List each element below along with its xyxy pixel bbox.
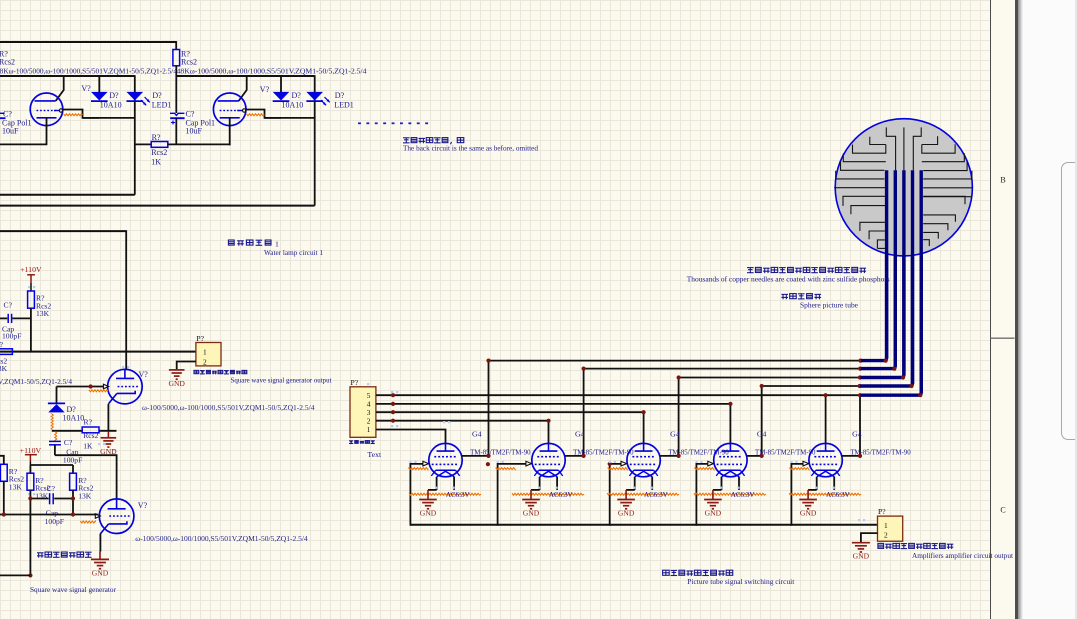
svg-text:48Kω-100/5000,ω-100/1000,S5/50: 48Kω-100/5000,ω-100/1000,S5/501V,ZQM1-50… [0,66,177,75]
wire plate column tube 2 [548,421,550,445]
svg-text:D?: D? [292,91,302,100]
snap marks tube 1 [409,461,411,463]
sphere electrode pattern top-center [886,127,895,170]
snap marks tube 3 [609,461,611,463]
sphere picture tube body [835,119,972,256]
heater squiggle AC bus tube 4 [694,493,766,495]
wire LED cathode link 1 [83,117,135,119]
svg-text:Rcs2: Rcs2 [151,148,167,157]
wire plate column tube 5 [825,395,827,444]
wire cathode stem V2 [229,118,231,146]
wire grid hook tube 1 [410,464,423,526]
wire LED cathode link 2 [265,117,315,119]
wire LED column 2b [314,75,316,205]
svg-text:100pF: 100pF [63,456,82,465]
no-ERC squiggle circuit 2 [247,114,265,116]
wire pin5 net G4 row [376,394,860,396]
svg-text:1: 1 [275,240,279,249]
junction navy-thin row 4 [858,384,862,388]
junction grid V3 [89,384,93,388]
wire pin2 to ground [177,362,196,370]
wire resistor left bottom [3,481,5,514]
wire sphere feeder row 4 [762,385,860,387]
svg-text:TM-85/TM2F/TM-90: TM-85/TM2F/TM-90 [755,447,816,456]
svg-text:Rcs2: Rcs2 [0,57,15,66]
junction navy-thin row 3 [858,375,862,379]
svg-text:AC6:3V: AC6:3V [446,490,470,499]
junction screen tube 4 [760,454,764,458]
wire cathode drop V3 [107,404,109,432]
heater pins tube 5 [816,477,818,490]
svg-text:GND: GND [168,379,185,388]
bus line 1 bend [861,170,887,360]
diode D? 10A10 (circuit 2) [273,92,290,101]
svg-text:1: 1 [367,425,371,434]
junction screen tube 3 [677,454,681,458]
wire sphere feeder row 1 [489,360,861,362]
resistor R? Rcs2 (top) [173,50,180,66]
wire R1K to cap column [168,143,230,145]
heater pins tube 2 [539,477,541,490]
wire LED column 1a [98,75,100,92]
svg-text:C?: C? [186,109,195,118]
svg-text:P?: P? [878,507,886,516]
junction dots grid B [2,512,6,516]
tube V? (oscillator A) [108,369,143,404]
wire pin3 net [376,411,644,413]
no-ERC squiggle grid tube 3 [608,468,628,470]
junction isolated dot near tube1 [486,462,490,466]
svg-text:ω-100/5000,ω-100/1000,S5/501V,: ω-100/5000,ω-100/1000,S5/501V,ZQM1-50/5,… [135,534,308,543]
sheet border zone column [990,0,1016,619]
svg-text:13K: 13K [9,483,23,492]
sphere electrode pattern top-right [922,136,938,144]
svg-text:G4: G4 [757,429,767,438]
svg-text:Picture tube signal switching: Picture tube signal switching circuit [687,577,795,586]
svg-text:C: C [1000,505,1005,514]
wire sphere feeder row 2 [584,368,861,370]
svg-text:V?: V? [139,370,149,379]
tube V? (top circuit 1) [30,93,63,126]
bus line 3 bend [860,170,904,377]
LED D? LED1 (circuit 1) [127,92,144,101]
tube V? switch 2 [532,443,565,476]
svg-text:B: B [1000,175,1005,184]
svg-text:AC6:3V: AC6:3V [644,490,668,499]
wire grid hook tube 3 [610,464,622,526]
heater pins tube 3 [634,477,636,490]
junction bus corner 1 [884,359,888,363]
tube V? (oscillator B) [99,499,134,534]
sphere electrode pattern bottom-left [843,196,886,206]
wire sphere feeder row 3 [679,377,860,379]
svg-text:GND: GND [618,509,635,518]
svg-text:Rcs2: Rcs2 [83,431,98,440]
wire cap stem to plate rail [54,445,56,455]
bus needle column x=912.5 [911,170,914,384]
no-ERC squiggle grid tube 5 [789,468,809,470]
sheet edge line [1015,0,1018,619]
svg-text:GND: GND [420,509,437,518]
svg-text:D?: D? [335,91,345,100]
wire grid hook tube 5 [791,464,803,526]
label picture tube switching (Chinese) [663,570,733,576]
wire resistor feed [175,41,177,49]
capacitor C? Cap 100pF (coupling B) [30,498,48,500]
svg-text:G4: G4 [852,429,862,438]
svg-text:TM-85/TM2F/TM-90: TM-85/TM2F/TM-90 [470,447,531,456]
svg-text:G4: G4 [472,429,482,438]
resistor R? Rcs2 1K (osc A) [82,427,99,433]
wire top B+ rail [0,41,176,43]
LED D? LED1 (circuit 2) [306,92,323,101]
capacitor C? Cap 100pF (top B) [49,440,61,442]
svg-text:10uF: 10uF [2,127,19,136]
heater pins tube 4 [721,477,723,490]
wire screen out tube 2 [565,455,584,457]
wire grid hook tube 2 [498,464,526,526]
snap marks tube 4 [695,461,697,463]
svg-text:LED1: LED1 [152,100,172,109]
wire cathode out circuit 1 [0,143,47,145]
label square wave generator output (Chinese) [194,370,247,374]
wire +110V rail B [30,464,73,466]
tube V? switch 3 [627,443,660,476]
svg-text:V?: V? [260,85,270,94]
tube V? switch 1 [429,443,462,476]
bus needle column x=903.9 [902,170,905,375]
svg-text:AC6:3V: AC6:3V [731,490,755,499]
label square wave generator (Chinese) [37,552,92,558]
wire sphere column 4 [761,386,763,456]
wire anode rail circuit 2 [176,75,314,77]
junction bus corner 2 [892,367,896,371]
svg-text:Thousands of copper needles ar: Thousands of copper needles are coated w… [687,275,890,284]
heater squiggle AC bus tube 2 [512,493,584,495]
svg-text:C?: C? [64,438,73,447]
svg-text:Rcs2: Rcs2 [181,57,197,66]
wire sphere column 2 [583,369,585,456]
svg-text:LED1: LED1 [334,100,354,109]
ground GND (amp out) [852,542,870,544]
svg-text:TM-85/TM2F/TM-90: TM-85/TM2F/TM-90 [573,447,634,456]
wire sphere column 3 [678,378,680,456]
snap marks oscillator [28,286,129,495]
bus needle column x=921.2 [920,170,923,393]
svg-text:V,ZQM1-50/5,ZQ1-2.5/4: V,ZQM1-50/5,ZQ1-2.5/4 [0,377,72,386]
heater squiggle AC bus tube 1 [409,493,481,495]
workspace right edge line [1075,0,1077,619]
tube V? switch 4 [714,443,747,476]
capacitor C? Cap Pol1 (circuit 2) [170,113,184,115]
wire cathode ground bus [410,524,877,526]
junction screen tube 5 [858,454,862,458]
resistor R? Rcs2 13K (A) [28,291,35,308]
svg-text:GND: GND [705,509,722,518]
svg-text:AC6:3V: AC6:3V [549,490,573,499]
svg-text:D?: D? [152,91,162,100]
svg-text:Sphere picture tube: Sphere picture tube [800,300,859,309]
svg-text:D?: D? [109,91,119,100]
svg-text:G4: G4 [670,429,680,438]
svg-text:1K: 1K [83,442,93,451]
wire plate feed V4 [55,455,117,499]
resistor R? Rcs2 13K (B mid) [27,473,34,490]
svg-text:The back circuit is the same a: The back circuit is the same as before, … [403,144,538,153]
wire plate column tube 3 [643,412,645,444]
note: back circuit same as before (Chinese) [403,138,464,145]
wire resistor to cap column [175,66,177,113]
svg-text:1: 1 [884,521,888,530]
label copper needles (Chinese) [747,267,866,273]
wire anode rail circuit 1 [0,75,135,77]
svg-text:5: 5 [367,391,371,400]
wire bottom rail B [0,574,30,576]
svg-text:G4: G4 [575,429,585,438]
svg-text:V?: V? [138,501,148,510]
wire resistor A bottom column [30,308,32,351]
svg-text:C?: C? [47,484,56,493]
connector P? amplifier output [878,516,903,541]
wire LED column 1b [134,75,136,195]
wire pin2 to ground (amp) [861,533,878,542]
no-ERC squiggle V3 grid [89,390,108,392]
svg-text:GND: GND [800,509,817,518]
junction bus corner 3 [901,375,905,379]
no-ERC squiggle grid tube 4 [694,468,714,470]
tube V? switch 5 [809,443,842,476]
heater squiggle AC bus tube 5 [789,493,861,495]
wire grid hook tube 4 [696,464,708,526]
wire screen out tube 5 [842,455,860,457]
wire grid hook circuit 1 [63,110,100,118]
wire sphere column 5 [859,395,861,456]
label water lamp circuit 1 (Chinese) [228,240,271,246]
svg-text:13K: 13K [78,491,92,500]
svg-text:+110V: +110V [20,265,42,274]
svg-text:10A10: 10A10 [282,100,304,109]
wire screen out tube 4 [747,455,762,457]
wire cathode stem V1 [46,118,48,145]
capacitor C? plates clipped (circuit 1) [0,112,5,114]
sheet zone divider [991,337,1015,339]
wire output net [0,351,196,353]
svg-text:48Kω-100/5000,ω-100/1000,S5/50: 48Kω-100/5000,ω-100/1000,S5/501V,ZQM1-50… [177,66,367,75]
svg-text:100pF: 100pF [2,332,21,341]
no-ERC squiggle circuit 1 [64,114,83,116]
label amplifier output (Chinese) [878,543,953,549]
junction dots coupling B [28,496,32,500]
connector P? 5-pin (Test) [350,387,376,438]
svg-text:ω-100/5000,ω-100/1000,S5/501V,: ω-100/5000,ω-100/1000,S5/501V,ZQM1-50/5,… [142,403,315,412]
svg-text:Text: Text [367,450,382,459]
svg-text:Water lamp circuit 1: Water lamp circuit 1 [264,248,323,257]
junction screen tube 2 [582,454,586,458]
wire grid in V3 [57,386,104,388]
svg-text:1: 1 [203,347,207,356]
connector P? square wave out [196,343,221,366]
sphere electrode pattern bottom-right [923,196,965,204]
wire plate rail oscillator A [0,230,126,232]
wire sphere column 1 [488,361,490,456]
continuation dots [358,122,361,124]
wire plate drop V2 [239,75,247,101]
bus needle column x=886.6 [885,170,888,358]
svg-text:+110V: +110V [20,446,42,455]
svg-text:GND: GND [853,552,870,561]
svg-text:Square wave signal generator o: Square wave signal generator output [231,375,333,384]
wire resistor C column [72,490,74,514]
bus needle column x=895.3 [894,170,897,366]
svg-text:13K: 13K [0,364,8,373]
ground GND tube 1 [427,490,429,500]
sheet edge shadow [1018,0,1023,619]
junction navy-thin row 1 [858,359,862,363]
ground GND tube 5 [807,490,809,500]
junction screen tube 1 [486,454,490,458]
no-ERC squiggle grid tube 2 [496,468,516,470]
ground GND (osc B) [99,551,101,559]
svg-text:100pF: 100pF [45,517,64,526]
bus line 2 bend [861,170,896,368]
svg-text:TM-85/TM2F/TM-90: TM-85/TM2F/TM-90 [668,447,729,456]
svg-text:GND: GND [523,509,540,518]
svg-text:P?: P? [196,334,204,343]
svg-text:R?: R? [152,133,161,142]
wire screen out tube 1 [462,455,489,457]
wire pin1 net [376,430,446,445]
svg-text:V?: V? [81,84,91,93]
junction bus corner 5 [918,393,922,397]
svg-text:TM-85/TM2F/TM-90: TM-85/TM2F/TM-90 [850,447,911,456]
heater pins tube 1 [436,477,438,490]
svg-text:2: 2 [884,530,888,539]
junction navy-thin row 5 [858,393,862,397]
bus line 4 bend [860,170,912,386]
wire bottom return 2 [0,205,315,207]
junction bus corner 4 [910,384,914,388]
wire plate column tube 4 [729,404,731,444]
collapsed panel edge [1061,162,1077,440]
svg-text:10A10: 10A10 [63,413,85,422]
wire diode to R1K [52,430,82,432]
resistor R? Rcs2 13K (B right) [70,473,77,490]
svg-text:1K: 1K [151,157,161,166]
label Test connector (Chinese) [349,441,375,444]
no-ERC squiggle grid tube 1 [408,468,428,470]
wire R1K to cathode node [99,430,117,432]
heater squiggle AC bus tube 3 [607,493,679,495]
snap marks tube 2 [497,461,499,463]
svg-text:AC6:3V: AC6:3V [826,490,850,499]
wire plate drop V1 [56,75,64,101]
wire LED column to R1K [135,143,151,145]
junction dots at connector [391,393,395,397]
ground GND (osc A) [107,432,109,438]
no-ERC squiggle diode [51,414,53,430]
svg-text:Square wave signal generator: Square wave signal generator [30,585,116,594]
diode D? 10A10 (osc A) [56,387,58,404]
junction dot bottom rail [28,573,32,577]
label sphere picture tube (Chinese) [781,294,821,300]
resistor R? Rcs2 1K (link) [151,142,168,148]
svg-text:GND: GND [92,568,109,577]
junction grid corner tube 3 [608,462,612,466]
snap marks tube 5 [790,461,792,463]
wire grid hook circuit 2 [246,110,281,118]
svg-text:10A10: 10A10 [100,100,122,109]
svg-text:13K: 13K [36,309,50,318]
wire grid net B [0,514,98,516]
ground GND (P? out) [169,369,185,371]
ground GND tube 2 [530,490,532,500]
resistor R? on output (clipped) [0,349,12,355]
tube V? (top circuit 2) [213,93,246,126]
wire bottom return 1 [0,194,135,196]
svg-text:Amplifiers amplifier circuit o: Amplifiers amplifier circuit output [912,551,1014,560]
svg-text:C?: C? [4,301,13,310]
no-ERC squiggle V4 grid [80,521,95,523]
wire resistor B column [29,490,31,575]
wire left feed [0,456,4,465]
bus line 5 bend [861,170,922,395]
no-ERC squiggle to cap [55,432,57,441]
wire cap to R1K [175,118,177,144]
svg-text:2: 2 [203,357,207,366]
svg-text:10uF: 10uF [186,127,203,136]
snap marks misc [367,383,865,521]
svg-text:R?: R? [84,418,93,427]
wire screen out tube 3 [660,455,679,457]
wire LED column 2a [280,75,282,92]
sphere electrode pattern top-left [870,137,886,145]
junction navy-thin row 2 [858,367,862,371]
diode D? 10A10 (circuit 1) [91,92,108,101]
svg-text:2: 2 [367,416,371,425]
wire plate column V3 [125,230,127,370]
capacitor C? Cap 100pF (A) [0,317,7,319]
resistor R? Rcs2 13K (left edge) [0,464,7,481]
wire pin2 net [376,420,549,422]
ground GND tube 4 [712,490,714,500]
ground GND tube 3 [625,490,627,500]
wire cathode drop V4 [99,534,101,552]
wire pin4 net [376,403,731,405]
svg-text:P?: P? [351,378,359,387]
svg-text:R?: R? [0,340,4,349]
